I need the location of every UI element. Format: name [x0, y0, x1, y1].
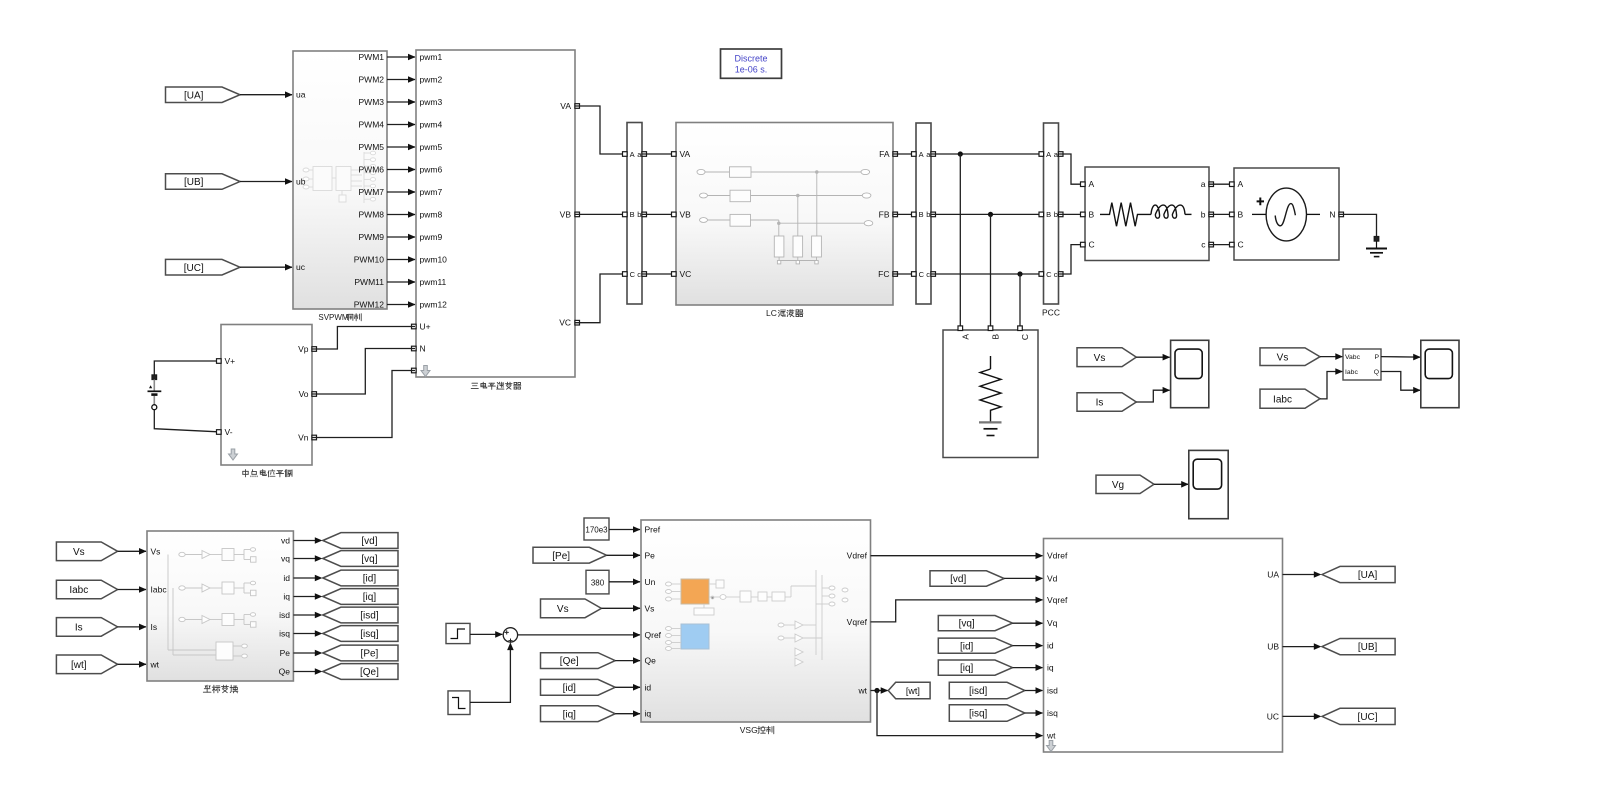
from tag Vs coord-transform input — [56, 542, 117, 561]
from tag Is coord-transform input — [56, 618, 117, 637]
svg-text:Qe: Qe — [279, 667, 291, 677]
from tag Vs power — [1260, 348, 1320, 366]
wires measurement1 to LC filter — [642, 153, 675, 155]
svg-text:A: A — [1238, 179, 1244, 189]
svg-text:UB: UB — [1267, 642, 1279, 652]
wire wt out — [871, 690, 888, 692]
svg-text:PCC: PCC — [1042, 308, 1060, 318]
wire Vqref — [871, 600, 1043, 622]
svg-text:isq: isq — [1047, 708, 1058, 718]
wire [isq] to isq — [1025, 712, 1043, 714]
svg-text:Vo: Vo — [299, 389, 309, 399]
loop block subsystem arrow icon — [1047, 741, 1056, 752]
svg-text:pwm12: pwm12 — [420, 300, 448, 310]
svg-text:Vs: Vs — [151, 546, 161, 556]
svg-text:[iq]: [iq] — [363, 592, 377, 603]
series RL branch block — [1085, 167, 1209, 261]
wire [UC] to uc — [240, 266, 292, 268]
svg-text:FA: FA — [879, 149, 890, 159]
svg-text:[id]: [id] — [563, 683, 577, 694]
svg-text:pwm3: pwm3 — [420, 97, 443, 107]
svg-text:PWM4: PWM4 — [359, 120, 385, 130]
wire VA to A — [575, 106, 626, 154]
scope2 — [1421, 340, 1459, 407]
junction node A — [958, 151, 963, 156]
svg-text:pwm1: pwm1 — [420, 52, 443, 62]
wire 170e3 to Pref — [609, 529, 640, 531]
svg-text:Vqref: Vqref — [847, 617, 868, 627]
wire Q to scope2 — [1381, 372, 1420, 391]
wire Vo to N — [312, 349, 415, 395]
wire vq to goto — [293, 558, 316, 560]
svg-text:B: B — [1238, 209, 1244, 219]
goto tag [isd] — [323, 607, 398, 623]
svg-text:pwm4: pwm4 — [420, 120, 443, 130]
svg-text:PWM6: PWM6 — [359, 165, 385, 175]
goto tag [Qe] — [323, 664, 398, 680]
constant 380 — [586, 570, 609, 594]
wire [UA] to ua — [240, 94, 292, 96]
wire VB to B — [575, 213, 626, 215]
svg-text:B: B — [991, 334, 1001, 340]
subsystem voltage-current loop block — [1044, 539, 1283, 753]
from tag [iq] 2 — [938, 660, 1012, 675]
PQ measurement block — [1343, 349, 1381, 380]
from tag Vs scope1 — [1077, 348, 1136, 367]
svg-text:PWM1: PWM1 — [359, 52, 385, 62]
svg-text:b: b — [637, 210, 641, 219]
svg-text:pwm9: pwm9 — [420, 232, 443, 242]
source plus sign — [1257, 198, 1264, 206]
wire Vdref — [871, 555, 1043, 557]
wire PCC c to grid C — [1059, 245, 1085, 274]
wire PWM8 to pwm8 — [387, 214, 415, 216]
wire P to scope2 — [1381, 356, 1420, 359]
subsystem LC filter block — [676, 123, 893, 306]
wire Vs to scope1 — [1136, 356, 1169, 358]
goto tag [UC] — [1322, 708, 1395, 724]
svg-text:[wt]: [wt] — [906, 686, 920, 696]
svg-text:[isq]: [isq] — [360, 629, 379, 640]
wire measurement2 to PCC row B — [931, 213, 1043, 215]
svg-text:isq: isq — [279, 629, 290, 639]
goto tag [UA] — [1322, 566, 1395, 582]
wire [UB] to ub — [240, 181, 292, 183]
wire Is to block — [118, 626, 146, 628]
svg-text:[wt]: [wt] — [71, 660, 87, 671]
wire isq to goto — [293, 633, 316, 635]
svg-text:B: B — [919, 210, 924, 219]
coord transform interior sketch — [168, 548, 256, 660]
wire PWM12 to pwm12 — [387, 304, 415, 306]
wire N to ground — [1339, 214, 1377, 236]
wire PWM2 to pwm2 — [387, 79, 415, 81]
wire [vd] to Vd — [1004, 577, 1042, 579]
caption neutral point balance — [243, 470, 248, 472]
svg-text:N: N — [420, 344, 426, 354]
svg-text:iq: iq — [283, 592, 290, 602]
junction wt — [874, 688, 879, 693]
svg-text:pwm10: pwm10 — [420, 255, 448, 265]
svg-text:A: A — [630, 150, 635, 159]
wire measurement2 to PCC row A — [931, 153, 1043, 155]
battery positive port — [152, 375, 157, 380]
svg-text:170e3: 170e3 — [585, 525, 608, 534]
svg-text:C: C — [1046, 270, 1052, 279]
svg-text:UC: UC — [1267, 711, 1279, 721]
svg-text:[UB]: [UB] — [1358, 642, 1378, 653]
wires RL to grid source — [1209, 183, 1234, 185]
wire id to goto — [293, 577, 316, 579]
wire V+ from battery — [154, 361, 221, 375]
caption coordinate transform — [204, 686, 207, 687]
svg-text:wt: wt — [858, 686, 868, 696]
from tag [UC] — [166, 259, 241, 275]
VSG interior sketch — [666, 570, 849, 666]
svg-text:PWM12: PWM12 — [354, 300, 385, 310]
wire PWM7 to pwm7 — [387, 191, 415, 193]
svg-text:id: id — [283, 573, 290, 583]
svg-text:Qref: Qref — [645, 630, 662, 640]
subsystem coordinate transform block — [147, 531, 293, 681]
svg-text:Vq: Vq — [1047, 618, 1058, 628]
svg-text:VC: VC — [680, 269, 692, 279]
svg-text:VB: VB — [680, 209, 692, 219]
load port A — [958, 326, 963, 331]
svg-text:380: 380 — [591, 579, 605, 588]
from tag [vq] 2 — [938, 616, 1012, 631]
step source 2 — [448, 691, 470, 715]
svg-text:Pref: Pref — [645, 525, 661, 535]
svg-text:Vn: Vn — [298, 433, 309, 443]
svg-text:C: C — [919, 270, 925, 279]
svg-text:[isq]: [isq] — [969, 709, 988, 720]
wire Vs to block — [118, 550, 146, 552]
svg-text:Vp: Vp — [298, 344, 309, 354]
svg-text:Iabc: Iabc — [1273, 394, 1292, 405]
svg-text:PWM7: PWM7 — [359, 187, 385, 197]
svg-text:id: id — [645, 682, 652, 692]
from tag [id] VSG — [541, 679, 616, 695]
from tag Is — [1077, 393, 1136, 411]
step source 1 — [446, 623, 470, 643]
svg-text:PWM3: PWM3 — [359, 97, 385, 107]
svg-text:[UA]: [UA] — [1358, 570, 1378, 581]
svg-text:iq: iq — [1047, 663, 1054, 673]
from tag Vg — [1096, 475, 1154, 493]
from tag [vd] 2 — [930, 571, 1004, 586]
svg-text:PWM9: PWM9 — [359, 232, 385, 242]
wire Vp to U+ — [312, 327, 415, 350]
svg-text:isd: isd — [1047, 686, 1058, 696]
junction node B — [988, 212, 993, 217]
battery negative port — [152, 405, 157, 410]
svg-text:Pe: Pe — [280, 648, 291, 658]
wire Is to scope1 — [1136, 390, 1169, 402]
svg-text:[Qe]: [Qe] — [560, 656, 579, 667]
wire PWM6 to pwm6 — [387, 169, 415, 171]
svg-text:uc: uc — [296, 262, 306, 272]
svg-text:Vdref: Vdref — [847, 551, 868, 561]
RL resistor symbol — [1100, 203, 1151, 227]
svg-text:VA: VA — [680, 149, 691, 159]
from tag [wt] coord-transform input — [56, 655, 117, 674]
inverter ports — [575, 104, 580, 109]
svg-text:Vdref: Vdref — [1047, 551, 1068, 561]
wire Vn to U- — [312, 371, 415, 438]
svg-text:Vabc: Vabc — [1345, 354, 1361, 361]
powergui Discrete block — [721, 49, 782, 78]
ground port — [1374, 237, 1379, 242]
goto tag [vq] — [323, 551, 398, 567]
svg-text:vd: vd — [281, 536, 290, 546]
svg-text:c: c — [926, 270, 930, 279]
wire [iq] to iq — [1013, 667, 1043, 669]
wire Pe to goto — [293, 652, 316, 654]
wire [id] to id — [1013, 645, 1043, 647]
svg-text:VC: VC — [559, 318, 571, 328]
svg-text:Vqref: Vqref — [1047, 595, 1068, 605]
goto tag [iq] — [323, 589, 398, 605]
svg-text:A: A — [960, 334, 970, 340]
wire PWM5 to pwm5 — [387, 146, 415, 148]
from tag [id] 2 — [938, 638, 1012, 653]
wire PCC a to grid A — [1059, 154, 1085, 184]
SVPWM interior sketch — [303, 151, 376, 203]
neutral-point balance subsystem block — [221, 325, 312, 466]
svg-text:[id]: [id] — [960, 641, 974, 652]
wire [Pe] to Pe — [607, 554, 641, 556]
wire [id] to id — [615, 686, 640, 688]
subsystem SVPWM modulation block — [293, 51, 387, 309]
wire node A down to load — [959, 154, 961, 326]
svg-text:Discrete: Discrete — [734, 54, 767, 64]
wire PWM9 to pwm9 — [387, 236, 415, 238]
wire Iabc to PQ block — [1320, 372, 1342, 399]
svg-text:[Pe]: [Pe] — [552, 551, 570, 562]
subsystem VSG control block — [641, 520, 871, 722]
svg-text:c: c — [637, 270, 641, 279]
svg-text:Is: Is — [151, 622, 158, 632]
svg-text:PWM8: PWM8 — [359, 210, 385, 220]
svg-text:vq: vq — [281, 554, 290, 564]
wire wt down to dq-abc block — [877, 691, 1043, 736]
svg-text:Iabc: Iabc — [1345, 369, 1358, 376]
svg-text:PWM2: PWM2 — [359, 75, 385, 85]
svg-text:SVPWM: SVPWM — [318, 313, 349, 322]
svg-text:wt: wt — [1046, 731, 1056, 741]
svg-text:[UA]: [UA] — [184, 90, 204, 101]
svg-text:C: C — [1020, 334, 1030, 340]
svg-text:[Pe]: [Pe] — [361, 649, 379, 660]
wire Iabc to block — [118, 589, 146, 591]
svg-text:pwm5: pwm5 — [420, 142, 443, 152]
wire Qe to goto — [293, 671, 316, 673]
load port C — [1018, 326, 1023, 331]
svg-text:[vd]: [vd] — [950, 574, 966, 585]
svg-text:B: B — [1046, 210, 1051, 219]
ground symbol — [1376, 241, 1378, 248]
wire [wt] to block — [118, 663, 146, 665]
RL inductor symbol — [1151, 205, 1185, 218]
svg-text:b: b — [926, 210, 930, 219]
svg-text:pwm2: pwm2 — [420, 75, 443, 85]
svg-text:PWM5: PWM5 — [359, 142, 385, 152]
wire PWM3 to pwm3 — [387, 101, 415, 103]
svg-text:[id]: [id] — [363, 574, 377, 585]
svg-text:[vq]: [vq] — [361, 554, 377, 565]
wire UC to goto — [1283, 715, 1316, 717]
svg-text:Is: Is — [75, 623, 83, 634]
svg-text:V-: V- — [225, 427, 233, 437]
svg-text:VA: VA — [560, 101, 571, 111]
svg-text:Vs: Vs — [73, 547, 85, 558]
svg-text:N: N — [1329, 209, 1335, 219]
wire step1 to sum — [470, 633, 502, 635]
svg-text:[isd]: [isd] — [360, 611, 379, 622]
svg-text:P: P — [1374, 354, 1379, 361]
wire step2 to sum bottom — [470, 644, 510, 703]
caption three-level inverter — [472, 382, 478, 384]
svg-text:[vq]: [vq] — [959, 619, 975, 630]
svg-text:[UC]: [UC] — [1358, 712, 1378, 723]
wire isd to goto — [293, 614, 316, 616]
svg-text:Un: Un — [645, 577, 656, 587]
wire UA to goto — [1283, 574, 1316, 576]
scope1 — [1171, 340, 1209, 407]
svg-text:Q: Q — [1374, 369, 1379, 376]
svg-text:[isd]: [isd] — [969, 686, 988, 697]
svg-text:ub: ub — [296, 176, 306, 186]
wire Vs to VSG — [601, 607, 640, 609]
svg-text:[UC]: [UC] — [184, 263, 204, 274]
wires LC filter to measurement2 — [893, 153, 915, 155]
from tag Iabc coord-transform input — [56, 580, 117, 599]
goto tag [vd] — [323, 533, 398, 549]
three-phase measurement block 1 — [627, 123, 642, 305]
svg-text:A: A — [1089, 179, 1095, 189]
battery DC source symbol — [153, 380, 155, 392]
wire node B down to load — [990, 214, 992, 326]
wire [isd] to isd — [1025, 690, 1043, 692]
svg-text:id: id — [1047, 641, 1054, 651]
wire node C down to load — [1019, 274, 1021, 326]
svg-text:b: b — [1201, 209, 1206, 219]
wire sum to Qref — [518, 634, 640, 636]
subsystem three-level inverter block — [416, 50, 575, 377]
wire VC to C — [575, 274, 626, 323]
svg-text:PWM11: PWM11 — [354, 277, 384, 287]
svg-text:[Qe]: [Qe] — [360, 667, 379, 678]
from tag [iq] VSG — [541, 706, 616, 722]
svg-text:a: a — [1201, 179, 1206, 189]
svg-text:pwm11: pwm11 — [420, 277, 447, 287]
svg-text:wt: wt — [150, 659, 160, 669]
svg-text:pwm6: pwm6 — [420, 165, 443, 175]
from tag [isq] 2 — [949, 705, 1025, 722]
svg-text:Pe: Pe — [645, 550, 656, 560]
PCC measurement block — [1044, 123, 1059, 304]
VSG interior blue block — [681, 624, 709, 649]
three-phase load block — [943, 330, 1038, 458]
from tag [UB] — [166, 174, 241, 190]
svg-text:Iabc: Iabc — [151, 585, 168, 595]
svg-text:iq: iq — [645, 709, 652, 719]
three-phase measurement block 2 — [916, 123, 931, 304]
junction node C — [1017, 271, 1022, 276]
wire [Qe] to Qe — [615, 660, 640, 662]
svg-text:A: A — [1046, 150, 1051, 159]
wire UB to goto — [1283, 646, 1316, 648]
svg-text:PWM10: PWM10 — [354, 255, 385, 265]
svg-text:Vd: Vd — [1047, 573, 1058, 583]
svg-text:[vd]: [vd] — [361, 536, 377, 547]
load port B — [988, 326, 993, 331]
wire measurement2 to PCC row C — [931, 273, 1043, 275]
wire PWM10 to pwm10 — [387, 259, 415, 261]
goto tag [Pe] — [323, 645, 398, 661]
svg-text:C: C — [630, 270, 636, 279]
svg-text:Qe: Qe — [645, 656, 657, 666]
grid AC source block — [1234, 168, 1339, 260]
svg-text:U+: U+ — [420, 322, 431, 332]
wire PWM11 to pwm11 — [387, 281, 415, 283]
svg-text:Iabc: Iabc — [69, 585, 88, 596]
from tag [isd] 2 — [949, 682, 1025, 699]
svg-text:b: b — [1054, 210, 1058, 219]
wire Vs to PQ block — [1320, 356, 1342, 358]
wire [iq] to iq — [615, 713, 640, 715]
svg-text:[iq]: [iq] — [960, 663, 974, 674]
svg-text:pwm7: pwm7 — [420, 187, 443, 197]
scope3 — [1189, 450, 1228, 518]
svg-text:C: C — [1089, 240, 1095, 250]
from tag [Pe] — [533, 547, 607, 563]
svg-text:ua: ua — [296, 90, 306, 100]
svg-text:pwm8: pwm8 — [420, 210, 443, 220]
svg-text:UA: UA — [1267, 570, 1279, 580]
svg-text:B: B — [1089, 209, 1095, 219]
svg-text:FB: FB — [879, 209, 890, 219]
wire PCC b to grid B — [1059, 213, 1085, 215]
svg-text:B: B — [630, 210, 635, 219]
wire PWM1 to pwm1 — [387, 56, 415, 58]
VSG interior orange block — [681, 579, 709, 604]
inverter U- port subsystem arrow icon — [421, 366, 430, 377]
svg-text:[UB]: [UB] — [184, 177, 204, 188]
svg-text:V+: V+ — [225, 356, 236, 366]
load resistor symbol — [990, 356, 992, 369]
svg-text:Vs: Vs — [645, 603, 655, 613]
source leads — [1252, 213, 1266, 215]
wire V- from battery — [154, 410, 221, 432]
load ground symbol — [979, 421, 1002, 423]
goto tag [UB] — [1322, 639, 1395, 655]
svg-text:LC: LC — [766, 308, 777, 318]
goto tag [id] — [323, 570, 398, 586]
constant 170e3 — [584, 518, 609, 540]
svg-text:VB: VB — [560, 209, 572, 219]
from tag Vs VSG — [541, 599, 602, 618]
goto tag [wt] — [888, 682, 930, 699]
LC filter interior sketch — [697, 167, 873, 264]
svg-text:FC: FC — [878, 269, 889, 279]
svg-text:c: c — [1054, 270, 1058, 279]
wire vd to goto — [293, 540, 316, 542]
wire [vq] to Vq — [1013, 622, 1043, 624]
wire 380 to Un — [609, 581, 640, 583]
svg-text:Vs: Vs — [1094, 353, 1106, 364]
